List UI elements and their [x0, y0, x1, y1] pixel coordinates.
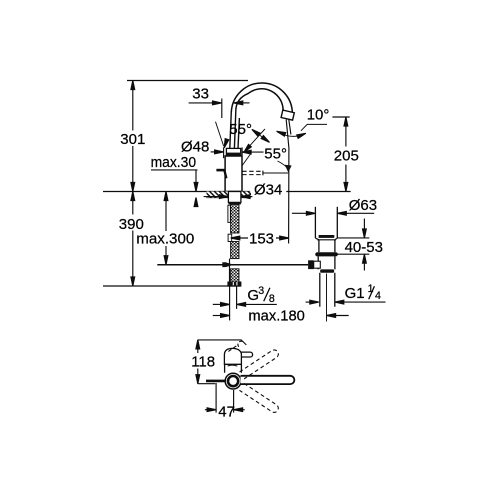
svg-text:8: 8	[269, 293, 275, 305]
dim 33 arrows	[213, 101, 222, 105]
threaded section 3	[231, 269, 239, 282]
dim 47 extensions	[216, 383, 234, 413]
svg-text:Ø34: Ø34	[254, 181, 282, 198]
dim max.30 underline	[151, 169, 198, 171]
dim 301 arrows	[131, 81, 135, 90]
plan lever grip	[237, 352, 253, 357]
svg-text:Ø48: Ø48	[181, 138, 209, 155]
collar ring	[226, 148, 240, 156]
break rod piece	[228, 234, 232, 241]
svg-text:4: 4	[375, 290, 381, 302]
dim Ø48 line left	[211, 151, 215, 153]
lever swing line left	[216, 122, 224, 146]
plan body lower	[225, 364, 242, 373]
lever swing double arrow	[254, 131, 269, 142]
max.30 arrow down to deck	[195, 170, 197, 183]
mounting nut	[228, 282, 241, 286]
drain rod block outline	[314, 261, 321, 268]
svg-text:G1: G1	[345, 285, 365, 302]
deck slab hatch left	[207, 192, 229, 198]
collar dark band	[227, 153, 240, 156]
deck slab hatch right	[241, 192, 251, 198]
swivel arc to outlet arrow	[278, 161, 288, 168]
drain centerline	[326, 274, 328, 322]
drain plug wall left	[314, 207, 316, 238]
spout pivot ring inner	[228, 376, 238, 386]
svg-text:118: 118	[191, 353, 215, 370]
svg-text:max.30: max.30	[151, 154, 197, 171]
bottom view: top reference line	[198, 340, 247, 345]
lever side view hook	[224, 169, 226, 178]
neck line right	[238, 118, 239, 148]
svg-text:301: 301	[120, 131, 145, 148]
swivel diagonal at body corner	[242, 154, 250, 166]
svg-text:3: 3	[258, 285, 264, 297]
drain plug wall right	[336, 207, 338, 238]
plan spout arm dashed up	[240, 348, 280, 379]
svg-text:47: 47	[218, 403, 235, 420]
dim max.180 left	[213, 315, 221, 317]
Ø48 arrow right / 55-2 leader	[242, 150, 251, 154]
dim G3/8	[213, 303, 221, 305]
pull rod upper	[228, 205, 231, 222]
dim Ø63	[292, 212, 307, 214]
deck surface line left	[103, 191, 250, 193]
supply nipple left line / centerline	[229, 286, 231, 320]
bottom view: bottom reference line	[198, 383, 215, 385]
spout inner arc	[236, 89, 283, 112]
drain lower body walls	[318, 256, 335, 269]
Ø48 tick left	[223, 147, 225, 158]
dim 33 extension line	[221, 99, 223, 119]
dim Ø34 left	[204, 196, 220, 198]
svg-text:55°: 55°	[264, 145, 287, 162]
deck surface line right	[286, 191, 350, 193]
bottom view: bold axis bar	[206, 380, 226, 383]
Ø48 tick right	[241, 147, 243, 155]
spout outer arc	[231, 83, 292, 115]
dim 390 arrows	[131, 192, 135, 201]
spout pivot ring outer	[225, 373, 241, 389]
dim 390 line	[132, 192, 134, 287]
thin line hole to outlet line	[263, 172, 288, 174]
max.30 arrow up to deck bottom	[195, 205, 197, 207]
dim 47 line and arrows	[205, 409, 208, 411]
drain gasket stadium	[315, 252, 338, 256]
dim 205 line	[345, 117, 347, 192]
supply nipple right line	[236, 286, 238, 309]
svg-text:55°: 55°	[229, 121, 252, 138]
rod junction blob	[222, 262, 234, 267]
40-53 top extension	[338, 237, 370, 239]
205 top extension	[332, 116, 349, 118]
drain rod block black	[308, 260, 314, 269]
40-53 arrow down	[363, 219, 365, 230]
40-53 arrow up	[363, 263, 365, 271]
hidden rod hole dashed lower	[242, 174, 262, 176]
dim 153 line	[231, 237, 289, 239]
svg-text:153: 153	[249, 230, 274, 247]
lever swing line right	[245, 129, 265, 151]
body cylinder	[225, 156, 242, 192]
hidden rod hole dashed upper	[242, 170, 262, 172]
neck line mid	[234, 109, 236, 149]
lever side view grip	[216, 169, 224, 172]
dim G1 1/4	[306, 301, 310, 303]
drain chamfer	[315, 238, 337, 240]
svg-text:40-53: 40-53	[345, 239, 383, 256]
dim max.300 line	[165, 192, 167, 265]
horizontal pull rod	[157, 264, 308, 266]
neck line left	[230, 112, 232, 149]
dim 301 line	[132, 81, 134, 192]
plan spout arm solid	[241, 376, 295, 384]
shank centerline through junction	[229, 259, 231, 287]
svg-text:33: 33	[192, 86, 209, 103]
svg-text:max.300: max.300	[136, 231, 194, 248]
svg-text:max.180: max.180	[248, 307, 305, 324]
plan lever body dome	[224, 348, 241, 364]
outlet vertical extension line	[286, 120, 289, 244]
outlet 10deg line	[289, 120, 291, 135]
10deg leader	[301, 124, 327, 130]
dim Ø34 right	[241, 195, 250, 199]
dim 118 line	[197, 340, 199, 384]
dim 33 line	[189, 102, 213, 104]
threaded section 2	[231, 242, 239, 259]
svg-text:10°: 10°	[307, 106, 330, 123]
drain lower dark band	[320, 269, 334, 272]
svg-text:Ø63: Ø63	[349, 197, 377, 214]
shank base dark band	[228, 202, 241, 204]
drain flange dark band	[319, 235, 335, 238]
hidden hole end tick	[262, 171, 264, 176]
10deg swing arc	[277, 132, 306, 137]
plan spout arm dashed down	[239, 383, 279, 414]
nut facet lines	[233, 282, 237, 286]
aerator tip	[281, 110, 294, 120]
dashed raised lever	[228, 345, 238, 352]
dashed raised lever cap	[238, 341, 244, 346]
cartridge dark band	[229, 154, 238, 156]
white text backings	[119, 132, 145, 146]
plan body seam	[228, 364, 238, 367]
drain tailpipe walls	[320, 273, 335, 307]
dim max.180 right	[327, 314, 336, 318]
deck slab bottom	[207, 197, 252, 199]
threaded section 1	[231, 204, 239, 233]
shank base below deck	[228, 192, 241, 203]
top extension line	[127, 80, 248, 82]
40-53 bottom extension	[335, 253, 369, 255]
drain upper body walls	[319, 240, 335, 252]
svg-text:205: 205	[334, 147, 359, 164]
bottom extension line	[103, 285, 241, 287]
